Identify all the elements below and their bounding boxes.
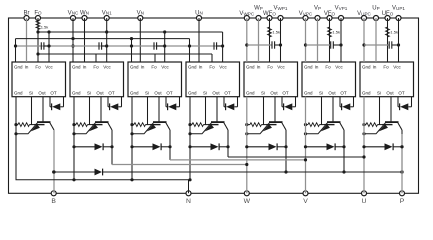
svg-text:Gnd: Gnd [246, 65, 255, 70]
svg-text:Gnd: Gnd [362, 91, 371, 96]
diode D7 (FWD) [398, 97, 412, 111]
diode D2 (FWD) [108, 97, 122, 111]
wire N bus [16, 97, 192, 194]
svg-text:1.5k: 1.5k [272, 29, 280, 34]
pin VUPC [357, 11, 371, 20]
wire VNC input drop [71, 18, 74, 62]
wire VFO vertical to U6 Fo [329, 18, 331, 62]
transistor Q5 IGBT [245, 122, 286, 135]
svg-text:Gnd: Gnd [14, 91, 23, 96]
svg-text:OT: OT [166, 91, 173, 96]
diode D5 (FWD) [282, 97, 296, 111]
wire Q4 collector to U route [227, 130, 229, 157]
resistor R7 gate [362, 123, 382, 127]
wire V phase route [170, 158, 307, 161]
pin VUP1 [392, 6, 405, 21]
svg-text:Gnd: Gnd [362, 65, 371, 70]
wire U3 Gnd stub [131, 39, 133, 62]
wire VN1 supply drop [106, 18, 108, 62]
svg-text:Gnd: Gnd [188, 65, 197, 70]
capacitor C5 [247, 41, 282, 48]
wire U1 Vcc stub [48, 32, 50, 62]
wire Br input to U1 In [26, 18, 28, 62]
wire U1 Out/collector sense [42, 97, 44, 122]
svg-text:In: In [315, 65, 319, 70]
svg-text:VFO: VFO [324, 11, 336, 17]
wire U4 Vcc stub [222, 32, 224, 62]
pin UN [195, 10, 203, 20]
diode D3 (FWD) [166, 97, 180, 111]
wire N-side gray ground bus [14, 44, 223, 47]
svg-text:UN: UN [195, 10, 203, 16]
svg-text:Gnd: Gnd [304, 91, 313, 96]
svg-text:In: In [373, 65, 377, 70]
capacitor C3 [154, 42, 166, 49]
svg-text:OT: OT [224, 91, 231, 96]
svg-text:Fo: Fo [35, 65, 41, 70]
transistor Q2 IGBT [72, 122, 112, 135]
resistor R3 gate [130, 123, 150, 127]
wire VNC/Gnd bus [16, 37, 190, 40]
wire WN input to U2 In [84, 18, 86, 62]
pin VVPC [299, 11, 313, 20]
wire VVPC drop to U6 Gnd [304, 18, 307, 62]
svg-text:Fo: Fo [383, 65, 389, 70]
svg-text:Vcc: Vcc [393, 65, 401, 70]
svg-text:Si: Si [29, 91, 33, 96]
pin VWP1 [274, 6, 288, 21]
wire Q5 collector to P bus [284, 130, 287, 174]
transistor Q4 IGBT [188, 122, 228, 135]
svg-text:Si: Si [87, 91, 91, 96]
wire Fo common bus [36, 52, 212, 55]
pin U [362, 191, 367, 205]
transistor Q1 IGBT [14, 122, 54, 135]
wire U7 Out/collector sense [390, 97, 392, 122]
svg-text:Gnd: Gnd [72, 91, 81, 96]
pin FO [34, 10, 42, 20]
svg-text:Vcc: Vcc [103, 65, 111, 70]
svg-text:Vcc: Vcc [277, 65, 285, 70]
svg-text:VVPC: VVPC [299, 11, 313, 17]
svg-text:Si: Si [145, 91, 149, 96]
svg-text:VVP1: VVP1 [335, 6, 348, 12]
svg-text:1.5k: 1.5k [390, 29, 398, 34]
wire outer case border [9, 18, 419, 193]
pin VP [314, 6, 321, 21]
wire U1 Gnd stub [15, 39, 17, 62]
diode D6 (FWD) [340, 97, 354, 111]
pin W [244, 191, 251, 205]
svg-text:Gnd: Gnd [14, 65, 23, 70]
svg-text:VP: VP [314, 6, 321, 12]
svg-text:In: In [257, 65, 261, 70]
svg-text:Out: Out [270, 91, 278, 96]
wire U6 Si/gate feed [321, 97, 323, 125]
driver IC U5 (pins Gnd In Fo Vcc / Gnd Si Out OT) [244, 62, 298, 97]
wire P bus [52, 170, 404, 173]
svg-text:Si: Si [377, 91, 381, 96]
svg-text:OT: OT [108, 91, 115, 96]
pin UFO [382, 11, 394, 20]
wire U3 Out/collector sense [158, 97, 160, 122]
wire VWPC drop to U5 Gnd [245, 18, 248, 62]
wire U6 Gnd/emitter vertical [305, 97, 307, 194]
resistor R4 gate [188, 123, 208, 127]
wire U2 Fo stub [95, 54, 97, 62]
pin VN [137, 10, 144, 20]
wire Q6 collector to P bus [342, 130, 345, 174]
wire U7 Si/gate feed [379, 97, 381, 125]
svg-text:Gnd: Gnd [130, 91, 139, 96]
svg-text:Out: Out [328, 91, 336, 96]
driver IC U3 (pins Gnd In Fo Vcc / Gnd Si Out OT) [128, 62, 182, 97]
wire U1 Gnd/emitter vertical [15, 97, 17, 180]
pin VNC [68, 10, 79, 20]
pin VFO [324, 11, 336, 20]
svg-text:Vcc: Vcc [161, 65, 169, 70]
capacitor C1 [41, 42, 50, 49]
wire U7 Gnd/emitter vertical [363, 97, 365, 194]
svg-text:FO: FO [34, 10, 42, 16]
wire U3 Fo stub [154, 54, 156, 62]
wire VN1/Vcc bus [36, 30, 222, 33]
svg-text:U: U [362, 198, 367, 205]
svg-text:WN: WN [80, 10, 89, 16]
wire U3 Gnd/emitter vertical [131, 97, 133, 180]
svg-text:Si: Si [319, 91, 323, 96]
pin WP [254, 6, 263, 21]
svg-text:1.5k: 1.5k [332, 29, 340, 34]
wire U6 Out/collector sense [332, 97, 334, 122]
svg-text:V: V [303, 198, 308, 205]
svg-text:VN: VN [137, 10, 144, 16]
svg-text:Fo: Fo [93, 65, 99, 70]
transistor Q3 IGBT [130, 122, 170, 135]
svg-text:Gnd: Gnd [304, 65, 313, 70]
wire WFO vertical to U5 Fo [269, 18, 271, 62]
wire U5 Gnd/emitter vertical [246, 97, 248, 194]
pin N [186, 191, 191, 205]
wire VN input to U3 In [139, 18, 141, 62]
driver IC U1 (pins Gnd In Fo Vcc / Gnd Si Out OT) [12, 62, 66, 97]
svg-text:Out: Out [38, 91, 46, 96]
wire W phase route [112, 163, 248, 166]
svg-text:Fo: Fo [267, 65, 273, 70]
diode D8 (clamp) [72, 143, 113, 150]
svg-text:VNC: VNC [68, 10, 79, 16]
svg-text:In: In [199, 65, 203, 70]
diode D1 (FWD) [50, 97, 64, 111]
svg-text:Fo: Fo [209, 65, 215, 70]
svg-text:Gnd: Gnd [72, 65, 81, 70]
resistor 1.5k Fo pull-up [36, 21, 48, 30]
resistor R5 gate [245, 123, 266, 127]
driver IC U7 (pins Gnd In Fo Vcc / Gnd Si Out OT) [360, 62, 414, 97]
svg-text:Out: Out [212, 91, 220, 96]
wire VP input to U6 In [317, 18, 319, 62]
wire UFO vertical to U7 Fo [387, 18, 389, 62]
pin V [303, 191, 308, 205]
svg-text:VN1: VN1 [102, 10, 112, 16]
wire U1 Si/gate feed [31, 97, 33, 125]
wire U2 Si/gate feed [89, 97, 91, 125]
wire VWP1 supply to U5 Vcc [280, 18, 282, 62]
wire U4 Out/collector sense [216, 97, 218, 122]
driver IC U6 (pins Gnd In Fo Vcc / Gnd Si Out OT) [302, 62, 356, 97]
wire Q2 collector to W route [111, 130, 113, 165]
wire U2 Out/collector sense [100, 97, 102, 122]
wire Fo vertical to U1 Fo [37, 18, 39, 62]
svg-text:Vcc: Vcc [219, 65, 227, 70]
wire U phase route [228, 155, 366, 158]
wire U2 Gnd/emitter vertical [73, 97, 75, 180]
wire VVP1 supply to U6 Vcc [340, 18, 342, 62]
diode D9 (clamp) [130, 143, 171, 150]
pin VWPC [239, 11, 254, 20]
wire P pin vertical [400, 134, 403, 193]
wire Q7 collector to P bus [400, 130, 403, 174]
svg-text:1.5k: 1.5k [41, 25, 49, 30]
wire WP input to U5 In [258, 18, 260, 62]
wire U4 Gnd/emitter vertical [189, 97, 191, 180]
resistor 1.5k VFO pull-up [328, 27, 340, 37]
svg-text:In: In [25, 65, 29, 70]
pin VVP1 [335, 6, 348, 21]
svg-text:W: W [244, 198, 251, 205]
svg-text:Gnd: Gnd [188, 91, 197, 96]
svg-text:VUP1: VUP1 [392, 6, 405, 12]
resistor 1.5k UFO pull-up [386, 27, 398, 37]
diode D14 (brake to P) [95, 169, 103, 176]
wire U5 Si/gate feed [263, 97, 265, 125]
svg-text:In: In [141, 65, 145, 70]
wire U3 Si/gate feed [147, 97, 149, 125]
svg-text:Vcc: Vcc [335, 65, 343, 70]
svg-text:B: B [51, 198, 56, 205]
svg-text:Br: Br [24, 10, 30, 16]
pin WFO [263, 11, 276, 20]
svg-text:WP: WP [254, 6, 263, 12]
transistor Q6 IGBT [304, 122, 344, 135]
svg-text:OT: OT [282, 91, 289, 96]
driver IC U2 (pins Gnd In Fo Vcc / Gnd Si Out OT) [70, 62, 124, 97]
svg-text:OT: OT [50, 91, 57, 96]
pin VN1 [102, 10, 112, 20]
diode D11 (clamp) [245, 143, 287, 150]
transistor Q7 IGBT [362, 122, 402, 135]
capacitor C6 [306, 41, 343, 48]
resistor R2 gate [72, 123, 92, 127]
svg-text:N: N [186, 198, 191, 205]
svg-text:Out: Out [386, 91, 394, 96]
svg-text:Out: Out [96, 91, 104, 96]
pin UP [372, 6, 379, 21]
resistor R1 gate [14, 123, 34, 127]
svg-text:Gnd: Gnd [246, 91, 255, 96]
wire U4 Si/gate feed [205, 97, 207, 125]
resistor R6 gate [304, 123, 325, 127]
diode D10 (clamp) [188, 143, 229, 150]
svg-text:Si: Si [203, 91, 207, 96]
svg-text:VWPC: VWPC [239, 11, 254, 17]
wire VUP1 supply to U7 Vcc [398, 18, 400, 62]
svg-text:OT: OT [340, 91, 347, 96]
svg-text:Si: Si [261, 91, 265, 96]
svg-text:WFO: WFO [263, 11, 276, 17]
svg-text:In: In [83, 65, 87, 70]
pin Br [24, 10, 30, 20]
svg-text:OT: OT [398, 91, 405, 96]
wire UN input to U4 In [198, 18, 200, 62]
pin P [400, 191, 405, 205]
svg-text:VWP1: VWP1 [274, 6, 288, 12]
pin WN [80, 10, 89, 20]
resistor 1.5k WFO pull-up [268, 27, 280, 37]
wire VUPC drop to U7 Gnd [362, 18, 365, 62]
svg-text:UP: UP [372, 6, 379, 12]
svg-text:UFO: UFO [382, 11, 394, 17]
diode D13 (clamp) [362, 143, 403, 150]
wire Q3 collector to V route [169, 130, 171, 160]
capacitor C7 [364, 41, 400, 48]
svg-text:Gnd: Gnd [130, 65, 139, 70]
capacitor C4 [214, 42, 224, 49]
svg-text:P: P [400, 198, 405, 205]
svg-text:Vcc: Vcc [45, 65, 53, 70]
wire U4 Fo stub [211, 54, 213, 62]
wire U3 Vcc stub [164, 32, 166, 62]
wire U4 Gnd stub [189, 39, 191, 62]
capacitor C2 [99, 42, 108, 49]
svg-text:Fo: Fo [325, 65, 331, 70]
wire Q1 collector to pin B [52, 130, 55, 193]
diode D12 (clamp) [304, 143, 346, 150]
wire U5 Out/collector sense [274, 97, 276, 122]
svg-text:Fo: Fo [151, 65, 157, 70]
pin B [51, 191, 56, 205]
wire UP input to U7 In [375, 18, 377, 62]
svg-text:VUPC: VUPC [357, 11, 371, 17]
diode D4 (FWD) [224, 97, 238, 111]
svg-text:Out: Out [154, 91, 162, 96]
driver IC U4 (pins Gnd In Fo Vcc / Gnd Si Out OT) [186, 62, 240, 97]
